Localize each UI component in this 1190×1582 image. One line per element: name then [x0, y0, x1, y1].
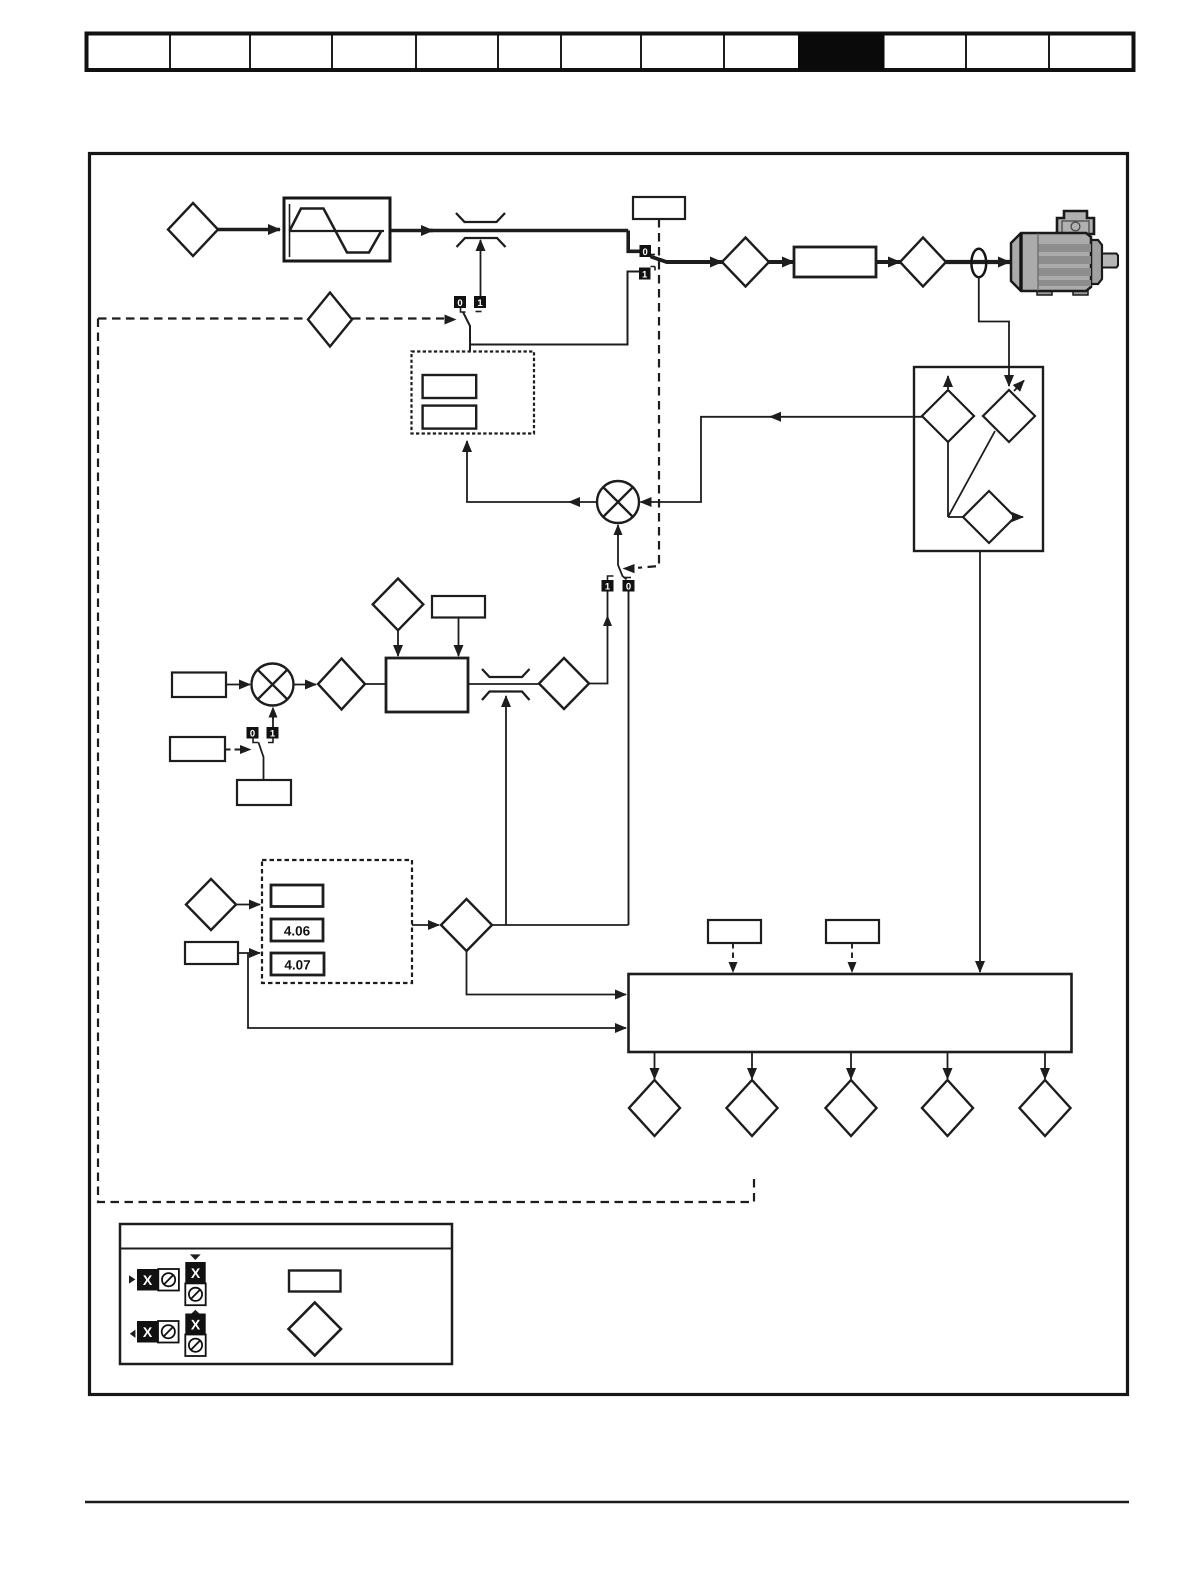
- parameter diamond J (current limit source): [186, 879, 260, 930]
- parameter diamond P1 speed reference input: [168, 203, 218, 256]
- current feedback box FB: [914, 367, 1043, 551]
- wire diamond M down to motor control box: [467, 951, 627, 995]
- svg-text:1: 1: [642, 269, 648, 280]
- key input parameter stack: [185, 1254, 205, 1305]
- switch SW1 torque mode select (0/1): [454, 296, 486, 351]
- wire M2 to diamond B: [294, 684, 317, 686]
- svg-text:0: 0: [250, 729, 255, 740]
- parameter diamond D above block C: [373, 579, 424, 657]
- output diamond O3: [826, 1052, 877, 1136]
- parameter box H control for SW4: [170, 737, 252, 761]
- dashed control line from box to SW3: [623, 219, 660, 573]
- diamond F2 active current: [983, 381, 1035, 443]
- parameter box K1: [271, 885, 323, 907]
- diamond F1 current magnitude: [922, 376, 974, 442]
- parameter box D1b: [423, 406, 477, 429]
- wire B to block C: [365, 683, 386, 685]
- svg-text:0: 0: [626, 582, 631, 593]
- wire D2 output to diamond M: [412, 924, 439, 926]
- output diamond O4: [922, 1052, 973, 1136]
- wire P4 to motor (thick): [946, 260, 1010, 264]
- svg-text:X: X: [191, 1317, 201, 1333]
- svg-text:X: X: [143, 1272, 153, 1288]
- wire L branch down to motor control box: [248, 953, 626, 1028]
- footer rule: [85, 1501, 1129, 1504]
- parameter diamond G current demand: [539, 658, 589, 709]
- wire A to multiplier M2: [226, 684, 250, 686]
- svg-text:X: X: [143, 1324, 153, 1340]
- svg-text:X: X: [191, 1265, 201, 1281]
- wire P1 to ramp block (thick): [218, 228, 280, 232]
- diagram border frame: [90, 154, 1128, 1395]
- dashed control line from P2 to SW1: [98, 315, 457, 325]
- parameter diamond P3: [722, 238, 769, 287]
- key input terminal marker: [129, 1269, 179, 1291]
- wire diamond M to clamp and SW3: [492, 924, 629, 926]
- limiter clamp L1 on speed path: [456, 213, 506, 247]
- parameter box C2 above motor control box: [826, 920, 879, 973]
- wire diamond G up to SW3 input 1: [589, 592, 612, 684]
- svg-text:4.06: 4.06: [284, 924, 311, 939]
- key read-only parameter diamond: [289, 1303, 342, 1356]
- wire SW1 common to mode switch input 1: [470, 272, 639, 345]
- parameter diamond B: [318, 659, 365, 710]
- parameter diamond P4: [900, 238, 946, 287]
- parameter box L: [185, 942, 260, 964]
- parameter box D1a: [423, 375, 477, 398]
- svg-text:4.07: 4.07: [284, 958, 310, 973]
- parameter box K2 value 4.06: [271, 919, 323, 941]
- current transducer ellipse: [971, 249, 986, 277]
- switch SW4 under M2 (0/1): [247, 707, 279, 781]
- wire current limit up to SW3 input 0: [628, 592, 630, 926]
- wire N to diamond P4 (thick): [876, 260, 900, 264]
- wire feedback box down to motor control box: [979, 551, 981, 972]
- switch SW3 under M1 (1/0): [602, 524, 635, 593]
- dashed box D2 current limit params: [262, 860, 412, 983]
- parameter diamond P2 torque mode selector: [308, 293, 352, 347]
- parameter box I feeding SW4: [237, 780, 291, 805]
- parameter diamond M current limit: [441, 899, 492, 951]
- block N (speed/current controller): [794, 247, 876, 277]
- wire current limit up into clamp L2: [505, 696, 507, 925]
- wire SW2 to diamond P3 (thick): [666, 260, 722, 264]
- ramp block (S-ramp accel/decel): [284, 198, 390, 261]
- key legend box: [120, 1224, 452, 1364]
- multiplier M1: [597, 481, 639, 523]
- dashed control run left and bottom: [98, 319, 754, 1203]
- wire ramp output (thick) with arrow: [391, 231, 640, 252]
- parameter box above mode switch: [633, 197, 685, 219]
- wire F1 output to multiplier M1: [641, 417, 923, 502]
- wire clamp limit input from switch SW1: [480, 240, 482, 296]
- parameter box C1 above motor control box: [708, 920, 761, 973]
- svg-text:0: 0: [643, 247, 648, 258]
- svg-text:0: 0: [457, 298, 462, 309]
- header tab table: [87, 34, 1134, 71]
- key read-write parameter box: [289, 1271, 341, 1292]
- motor control box: [629, 974, 1072, 1052]
- output diamond O1: [629, 1052, 680, 1136]
- wire M1 output to dotted box: [467, 441, 597, 502]
- wire block C through clamp L2 to diamond G: [468, 683, 539, 685]
- wire P3 to block N (thick): [769, 260, 794, 264]
- svg-text:1: 1: [270, 729, 276, 740]
- wires inside feedback box: [948, 431, 995, 517]
- key output terminal marker: [130, 1321, 179, 1343]
- parameter box A torque reference: [172, 673, 226, 698]
- multiplier M2: [252, 664, 294, 706]
- limiter clamp L2: [482, 669, 530, 700]
- motor M: [1011, 211, 1118, 295]
- output diamond O2: [727, 1052, 778, 1136]
- switch SW2 speed/torque mode (0/1): [639, 245, 668, 280]
- svg-text:1: 1: [477, 298, 483, 309]
- block C torque to current conversion: [386, 658, 468, 712]
- diamond F3 magnetising current: [963, 491, 1023, 543]
- wire motor current feedback to box FB: [979, 277, 1009, 386]
- output diamond O5: [1020, 1052, 1071, 1136]
- dotted box D1 torque demand params: [412, 352, 535, 434]
- parameter box K3 value 4.07: [271, 953, 324, 975]
- key output parameter stack: [185, 1310, 205, 1356]
- parameter box E above block C: [432, 596, 485, 656]
- svg-text:1: 1: [605, 582, 611, 593]
